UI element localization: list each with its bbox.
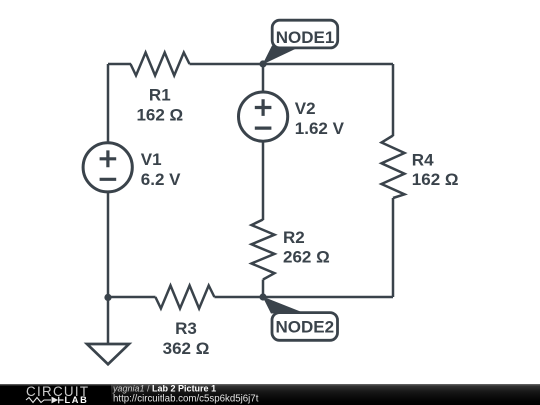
resistor R3 [155, 286, 214, 309]
svg-text:262 Ω: 262 Ω [283, 247, 330, 266]
svg-text:yagnia1 / Lab 2 Picture 1: yagnia1 / Lab 2 Picture 1 [112, 384, 216, 394]
wire middle branch (V2 to R2) [262, 141, 265, 220]
node NODE2 flag bubble [272, 313, 338, 341]
junction dot bottom left [104, 294, 111, 301]
svg-text:6.2 V: 6.2 V [141, 170, 181, 189]
svg-text:NODE1: NODE1 [276, 28, 335, 47]
resistor R1 [131, 53, 190, 76]
resistor R2 [252, 220, 275, 280]
resistor R4 [382, 136, 405, 199]
svg-text:362 Ω: 362 Ω [163, 339, 210, 358]
ground stem wire [107, 297, 110, 344]
wire top rail middle segment [190, 63, 394, 66]
svg-text:R3: R3 [175, 319, 197, 338]
node NODE2 junction dot [259, 293, 266, 300]
wire bottom rail right segment [214, 296, 393, 299]
voltage source V2 [239, 92, 288, 141]
wire left rail upper segment [107, 64, 110, 144]
voltage source V1 [83, 143, 132, 192]
wire top rail left segment [108, 63, 131, 66]
svg-text:R2: R2 [283, 228, 305, 247]
svg-text:162 Ω: 162 Ω [412, 170, 459, 189]
footer bar [0, 384, 540, 405]
wire middle branch upper (NODE1 to V2) [262, 64, 265, 93]
node NODE1 flag pointer [263, 46, 297, 65]
svg-text:R1: R1 [149, 86, 171, 105]
svg-text:1.62 V: 1.62 V [295, 119, 345, 138]
wire right rail upper segment [392, 64, 395, 136]
wire bottom rail left segment [108, 296, 156, 299]
svg-text:NODE2: NODE2 [276, 317, 335, 336]
CircuitLab logo diode [52, 397, 59, 404]
svg-text:162 Ω: 162 Ω [136, 105, 183, 124]
wire right rail lower segment [392, 198, 395, 297]
node NODE2 flag pointer [263, 297, 302, 314]
node NODE1 junction dot [259, 60, 266, 67]
svg-text:V2: V2 [295, 99, 316, 118]
CircuitLab logo resistor zigzag [26, 398, 51, 403]
svg-text:http://circuitlab.com/c5sp6kd5: http://circuitlab.com/c5sp6kd5j6j7t [113, 393, 259, 404]
wire left rail lower segment [107, 191, 110, 297]
svg-text:R4: R4 [412, 150, 434, 169]
ground [87, 344, 129, 364]
svg-text:LAB: LAB [65, 395, 89, 405]
wire middle branch lower (R2 to NODE2) [262, 280, 265, 298]
node NODE1 flag bubble [272, 20, 338, 48]
svg-text:V1: V1 [141, 150, 162, 169]
